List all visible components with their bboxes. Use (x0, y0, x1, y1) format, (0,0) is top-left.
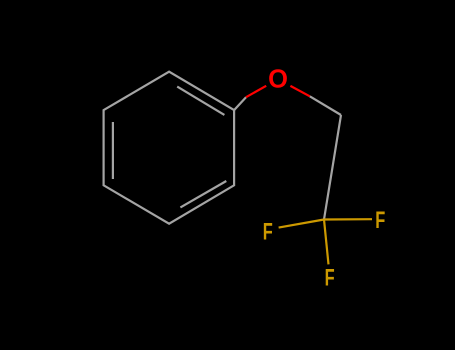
benzene ring (104, 72, 235, 224)
bond C to F bottom (324, 220, 329, 265)
bond C to F left (279, 220, 324, 228)
svg-text:O: O (268, 66, 288, 94)
red bond stub, O left (246, 86, 266, 97)
svg-text:F: F (375, 207, 385, 234)
double bond inner line, top-right ring edge (177, 87, 224, 115)
bond C to F right (324, 218, 372, 221)
svg-text:F: F (325, 264, 335, 291)
svg-text:F: F (263, 218, 273, 245)
wire: gray part of O to ring bond (234, 97, 246, 110)
double bond inner line, bottom-right ring edge (180, 181, 226, 207)
wire: gray part of O to CH2 bond (310, 96, 341, 115)
bond CH2 to CF3 carbon (324, 115, 341, 220)
red bond stub, O right (290, 86, 309, 96)
double bond inner line, left ring edge (112, 122, 114, 179)
